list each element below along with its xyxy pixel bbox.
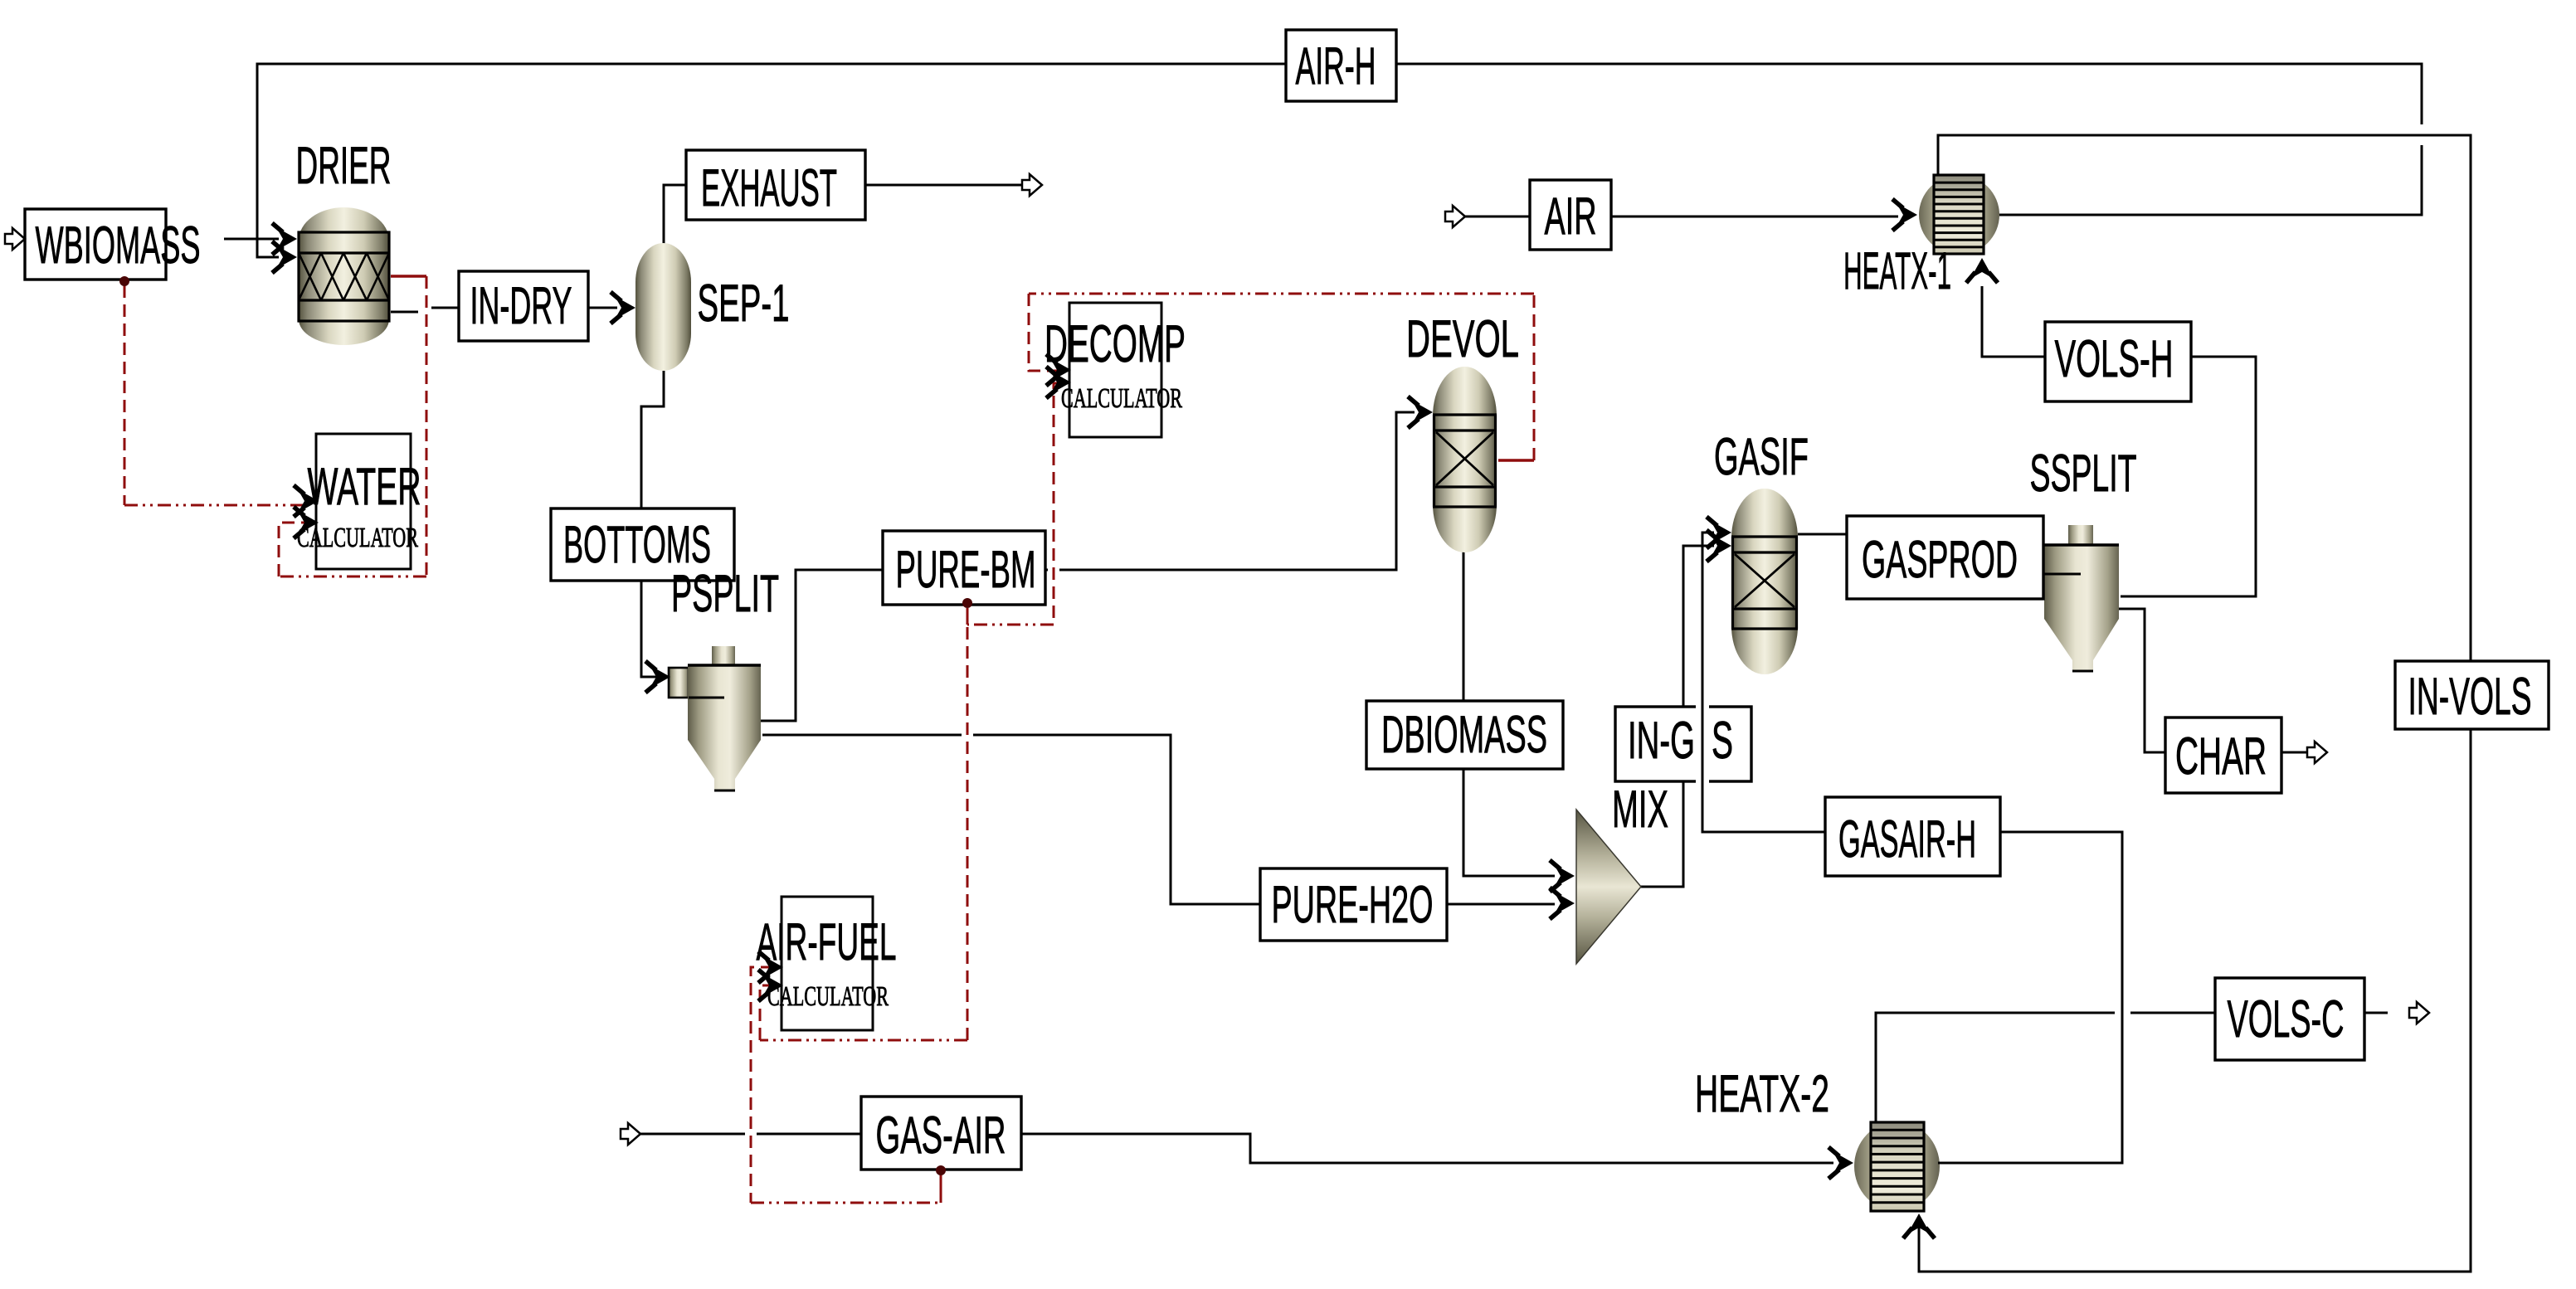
svg-text:HEATX-2: HEATX-2: [1695, 1065, 1829, 1123]
wire IN-GAS stream: [1639, 546, 1714, 887]
arrow AIR into HEATX-1: [1892, 199, 1917, 231]
node WBIOMASS stream label: [25, 209, 166, 280]
svg-text:VOLS-H: VOLS-H: [2055, 330, 2174, 388]
arrow export at AIR-FUEL calculator: [758, 951, 783, 983]
node GASAIR-H stream label: [1825, 797, 2000, 876]
svg-text:SEP-1: SEP-1: [698, 275, 790, 333]
wire BOTTOMS stream: [641, 371, 664, 677]
block AIR-FUEL calculator rectangle: [782, 897, 873, 1030]
svg-text:GAS-AIR: GAS-AIR: [876, 1107, 1006, 1165]
node AIR-H stream label: [1286, 30, 1396, 101]
node PURE-H2O stream label: [1260, 868, 1447, 941]
block WATER calculator rectangle: [316, 434, 411, 569]
arrow GASAIR-H into GASIF: [1707, 517, 1731, 548]
svg-text:EXHAUST: EXHAUST: [701, 159, 837, 217]
svg-text:WATER: WATER: [308, 458, 421, 516]
open arrow AIR feed: [1445, 206, 1465, 227]
wire VOLS-C stream left part: [1876, 1013, 2115, 1121]
block DEVOL icon (yield reactor capsule): [1433, 367, 1497, 552]
svg-text:CHAR: CHAR: [2175, 727, 2267, 786]
node export dot at WBIOMASS: [119, 276, 129, 286]
open arrow GAS-AIR feed: [621, 1123, 640, 1145]
wire calculator export DECOMP to PURE-BM: [1054, 383, 1060, 625]
arrow WBIOMASS into DRIER: [272, 223, 297, 255]
node export dot at PURE-BM: [962, 598, 972, 608]
arrow tap into WATER calculator: [294, 507, 319, 538]
wire calculator import WBIOMASS to WATER: [124, 285, 126, 505]
wire AIR to HEATX-1: [1465, 216, 1898, 218]
open arrow WBIOMASS feed: [5, 228, 25, 250]
node GASPROD stream label: [1847, 516, 2043, 599]
open arrow EXHAUST product: [1022, 174, 1042, 196]
svg-text:PURE-BM: PURE-BM: [896, 541, 1036, 599]
arrow import into WATER calculator: [294, 485, 319, 517]
block PSPLIT icon (cyclone): [669, 646, 761, 790]
svg-text:MIX: MIX: [1612, 781, 1668, 839]
svg-text:DBIOMASS: DBIOMASS: [1381, 706, 1547, 764]
svg-text:SSPLIT: SSPLIT: [2030, 445, 2137, 503]
svg-text:WBIOMASS: WBIOMASS: [36, 216, 201, 275]
arrow BOTTOMS into PSPLIT: [645, 661, 670, 693]
block HEATX-1 icon (heat exchanger): [1919, 175, 1999, 255]
wire WBIOMASS to DRIER: [224, 238, 279, 241]
wire PURE-BM stream: [760, 412, 1415, 721]
arrow PURE-BM into DEVOL: [1408, 396, 1433, 428]
svg-text:IN-G: IN-G: [1628, 712, 1695, 770]
block SSPLIT icon (cyclone): [2034, 525, 2119, 671]
svg-text:DECOMP: DECOMP: [1045, 315, 1186, 373]
wire EXHAUST stream: [664, 185, 1022, 245]
svg-text:GASPROD: GASPROD: [1862, 531, 2018, 589]
svg-text:AIR-FUEL: AIR-FUEL: [757, 913, 897, 971]
svg-text:CALCULATOR: CALCULATOR: [297, 523, 418, 553]
wire AIR-H stream: [257, 64, 2422, 257]
node IN-VOLS stream label: [2395, 661, 2549, 729]
arrow AIR-H into DRIER: [272, 241, 297, 273]
svg-text:CALCULATOR: CALCULATOR: [767, 981, 889, 1012]
node VOLS-C stream label: [2215, 978, 2364, 1060]
arrow DBIOMASS into MIX: [1550, 860, 1575, 892]
block DRIER icon (rotary drier vessel): [299, 207, 389, 345]
block MIX icon (mixer triangle): [1576, 810, 1641, 964]
wire calculator import PURE-BM to AIR-FUEL: [967, 608, 969, 1040]
block HEATX-2 icon (heat exchanger): [1854, 1121, 1940, 1211]
svg-text:AIR-H: AIR-H: [1296, 37, 1376, 95]
svg-text:IN-VOLS: IN-VOLS: [2408, 668, 2532, 726]
svg-text:AIR: AIR: [1545, 187, 1597, 246]
svg-text:PURE-H2O: PURE-H2O: [1272, 876, 1434, 934]
node PURE-BM stream label: [883, 531, 1045, 605]
node GAS-AIR stream label: [861, 1097, 1021, 1170]
arrow export at DECOMP calculator: [1046, 367, 1071, 398]
svg-text:CALCULATOR: CALCULATOR: [1061, 383, 1182, 414]
svg-text:PSPLIT: PSPLIT: [671, 565, 779, 623]
wire CHAR stream: [2119, 609, 2307, 752]
arrow IN-DRY into SEP-1: [611, 292, 635, 323]
node EXHAUST stream label: [686, 150, 865, 220]
block GASIF icon (gasifier reactor capsule): [1731, 489, 1798, 674]
arrow import into DECOMP calculator: [1046, 354, 1071, 386]
wire GASAIR-H stream: [1702, 533, 2122, 1163]
node export dot at GAS-AIR: [936, 1165, 946, 1175]
open arrow VOLS-C product: [2409, 1002, 2429, 1024]
arrow import into AIR-FUEL calculator: [758, 970, 783, 1001]
wire DBIOMASS stream: [1463, 551, 1555, 876]
node CHAR stream label: [2165, 717, 2281, 793]
arrow PURE-H2O into MIX: [1550, 888, 1575, 919]
svg-text:DEVOL: DEVOL: [1406, 310, 1519, 368]
node DBIOMASS stream label: [1366, 701, 1563, 769]
wire GAS-AIR stream: [640, 1134, 1833, 1163]
arrow IN-GAS into GASIF: [1707, 530, 1731, 562]
block DECOMP calculator rectangle: [1069, 303, 1161, 437]
arrow GAS-AIR into HEATX-2: [1829, 1147, 1853, 1179]
arrow VOLS-H into HEATX-1: [1966, 258, 1998, 283]
svg-text:GASIF: GASIF: [1714, 428, 1809, 486]
svg-text:HEATX-1: HEATX-1: [1843, 242, 1951, 300]
wire PURE-H2O stream: [762, 735, 1555, 904]
wire calculator export AIR-FUEL to GAS-AIR: [751, 967, 773, 1203]
svg-text:IN-DRY: IN-DRY: [470, 277, 572, 335]
block SEP-1 icon (flash separator capsule): [635, 243, 691, 371]
wire IN-VOLS stream: [1919, 135, 2471, 1272]
wire calculator tap at DRIER outlet: [391, 275, 426, 277]
wire VOLS-C stream right part: [2130, 1012, 2388, 1014]
wire calculator tap at DEVOL outlet: [1498, 459, 1534, 461]
wire IN-DRY stream: [391, 308, 617, 312]
wire VOLS-H stream: [1982, 286, 2256, 596]
svg-text:VOLS-C: VOLS-C: [2228, 990, 2345, 1048]
arrow IN-VOLS into HEATX-2: [1903, 1214, 1935, 1238]
node IN-DRY stream label: [459, 271, 588, 341]
node BOTTOMS stream label: [551, 508, 734, 581]
svg-text:DRIER: DRIER: [296, 137, 392, 195]
node IN-GAS stream label: [1615, 707, 1751, 781]
wire GASPROD stream: [1798, 534, 2044, 574]
node AIR stream label: [1530, 180, 1611, 250]
node VOLS-H stream label: [2045, 322, 2191, 401]
svg-text:S: S: [1712, 712, 1733, 770]
svg-text:GASAIR-H: GASAIR-H: [1838, 810, 1976, 868]
wire calculator import to DECOMP: [1029, 294, 1058, 371]
open arrow CHAR product: [2307, 742, 2327, 763]
